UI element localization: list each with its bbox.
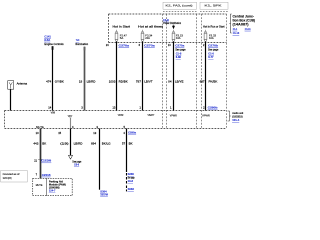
svg-text:13: 13 [93,131,96,135]
svg-text:20A: 20A [145,36,150,40]
svg-text:C1-11: C1-11 [245,27,251,31]
svg-text:V99: V99 [51,111,56,115]
svg-text:797: 797 [136,79,141,83]
svg-text:See page: See page [208,48,219,52]
svg-text:GY/BK: GY/BK [55,79,64,83]
svg-text:S083: S083 [128,187,135,191]
svg-text:VPLT: VPLT [68,114,73,118]
svg-text:Hot in Start: Hot in Start [113,25,131,29]
svg-text:12/04 (05): 12/04 (05) [3,176,12,180]
svg-text:687: 687 [200,79,205,83]
svg-text:101-4: 101-4 [232,118,239,122]
svg-text:694: 694 [91,141,96,145]
svg-text:PK/BK: PK/BK [209,79,218,83]
svg-text:Hot at all times: Hot at all times [138,25,164,29]
svg-text:See page: See page [175,48,186,52]
svg-text:C1-0: C1-0 [208,52,214,56]
svg-text:BK/LG: BK/LG [102,141,112,145]
svg-text:5A: 5A [120,36,124,40]
svg-text:474: 474 [46,79,51,83]
svg-text:C270a: C270a [119,43,130,47]
svg-text:RD/BK: RD/BK [119,79,128,83]
svg-text:C270a: C270a [175,43,184,47]
svg-text:(19): (19) [60,141,69,145]
svg-text:VPWR: VPWR [118,113,124,117]
svg-text:19: 19 [79,79,83,83]
svg-text:04: 04 [168,79,172,83]
svg-text:124-7: 124-7 [49,189,56,193]
svg-text:VBATT: VBATT [148,113,155,117]
svg-text:C1-13: C1-13 [233,31,240,35]
svg-text:VPWR: VPWR [170,113,177,117]
svg-text:C290b: C290b [208,106,218,110]
svg-text:K2, FA3, (cont): K2, FA3, (cont) [166,4,193,8]
svg-text:BK: BK [42,141,46,145]
svg-text:57: 57 [122,141,126,145]
svg-text:13: 13 [112,106,115,110]
svg-text:Engine Controls: Engine Controls [44,42,64,46]
svg-text:6-77: 6-77 [208,55,214,59]
svg-text:14: 14 [48,106,51,110]
svg-text:LB/YE: LB/YE [175,79,184,83]
svg-text:C270a: C270a [144,43,155,47]
svg-text:LB/RD: LB/RD [87,79,97,83]
svg-text:(14A067): (14A067) [233,22,249,26]
svg-text:Power Distribution: Power Distribution [163,21,181,25]
svg-text:C141: C141 [44,34,51,38]
svg-text:10A: 10A [176,36,181,40]
svg-text:MUTE: MUTE [36,184,43,187]
svg-text:Hot in Run or Start: Hot in Run or Start [203,25,225,29]
svg-text:10-8: 10-8 [128,179,134,183]
svg-text:10: 10 [36,131,39,135]
svg-text:443: 443 [33,141,38,145]
svg-text:Covered as of: Covered as of [3,172,20,176]
svg-text:VPWR: VPWR [202,113,210,117]
svg-text:1003: 1003 [109,79,116,83]
svg-text:15: 15 [58,131,61,135]
svg-text:MUTE: MUTE [36,125,44,129]
svg-text:LB/RD: LB/RD [74,141,84,145]
svg-text:C8-6: C8-6 [74,163,80,167]
svg-text:10A: 10A [209,36,214,40]
svg-text:C2015: C2015 [42,173,51,177]
svg-text:S280: S280 [128,172,135,176]
svg-text:Illumination: Illumination [75,42,88,46]
svg-text:C1-8: C1-8 [176,52,182,56]
svg-text:LB/VT: LB/VT [144,79,153,83]
svg-text:C230: C230 [41,159,52,163]
svg-text:Antenna: Antenna [17,81,28,85]
svg-text:K1, 5FK: K1, 5FK [205,4,222,8]
svg-text:101-M: 101-M [100,193,108,197]
svg-text:C270b: C270b [208,43,218,47]
svg-text:6-88: 6-88 [176,55,182,59]
svg-text:BK: BK [129,141,133,145]
svg-text:C290a: C290a [128,131,136,135]
